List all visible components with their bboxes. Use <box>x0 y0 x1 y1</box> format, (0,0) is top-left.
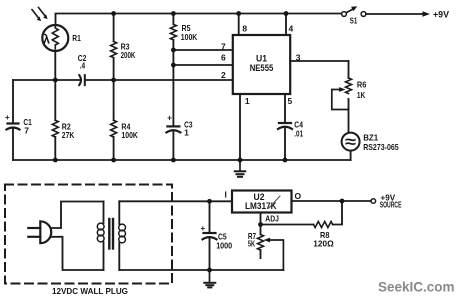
pin ADJ <box>261 213 280 225</box>
wire top rail <box>56 14 342 25</box>
wire pin7 line <box>173 49 232 51</box>
resistor R3 <box>111 14 117 81</box>
svg-text:4: 4 <box>289 23 294 33</box>
pin 3 <box>290 53 348 63</box>
resistor R8 <box>261 201 343 228</box>
ground supply <box>204 270 215 287</box>
svg-text:ADJ: ADJ <box>265 214 279 224</box>
wire pin6 line <box>173 64 232 66</box>
svg-text:2: 2 <box>221 70 226 80</box>
potentiometer R6 <box>332 61 352 132</box>
svg-text:O: O <box>295 191 302 201</box>
label BZ1 RS273-065 <box>363 133 399 153</box>
switch S1 <box>342 6 366 16</box>
label R7 5K <box>248 231 256 248</box>
svg-text:1K: 1K <box>357 90 366 100</box>
transformer T1 secondary winding <box>119 201 126 270</box>
label C2 .4 <box>78 53 87 70</box>
potentiometer R7 <box>258 225 284 271</box>
svg-text:I: I <box>225 190 227 200</box>
svg-text:≈: ≈ <box>345 134 356 151</box>
label R5 100K <box>181 23 198 42</box>
svg-text:.01: .01 <box>294 129 303 139</box>
pin 1 <box>240 94 250 160</box>
label C3 1 <box>184 119 193 137</box>
photoresistor R1 <box>42 25 68 78</box>
ground <box>235 160 245 177</box>
resistor R4 <box>111 80 117 160</box>
svg-text:3: 3 <box>296 53 301 63</box>
svg-text:7: 7 <box>24 125 29 135</box>
svg-text:+: + <box>167 114 172 123</box>
capacitor C5 <box>201 201 217 270</box>
svg-text:+: + <box>201 224 206 233</box>
label C4 .01 <box>294 120 303 139</box>
svg-text:27K: 27K <box>62 130 75 140</box>
svg-text:5: 5 <box>288 96 293 106</box>
svg-text:λ: λ <box>43 33 50 47</box>
label R8 120ohm <box>313 230 334 248</box>
transformer T1 primary winding <box>97 202 104 271</box>
label R3 200K <box>121 42 136 60</box>
wire to +9V arrow <box>366 11 430 16</box>
svg-text:1000: 1000 <box>216 241 232 251</box>
label R6 1K <box>357 79 367 100</box>
light arrows at R1 <box>32 8 48 22</box>
capacitor C3 <box>166 114 180 160</box>
wire U2 output <box>292 199 376 204</box>
svg-text:BZ1: BZ1 <box>363 133 378 143</box>
svg-text:LM317K: LM317K <box>245 201 277 211</box>
svg-text:+: + <box>5 113 10 122</box>
wire plug to transformer primary <box>51 202 103 271</box>
svg-text:SOURCE: SOURCE <box>380 201 402 210</box>
capacitor C1 <box>5 80 20 160</box>
svg-text:1: 1 <box>245 96 250 106</box>
regulator U2 LM317K box <box>232 191 292 213</box>
svg-text:100K: 100K <box>121 130 138 140</box>
AC plug P1 <box>28 221 51 243</box>
svg-text:100K: 100K <box>181 32 198 42</box>
svg-text:.4: .4 <box>80 60 86 70</box>
label R4 100K <box>121 122 138 140</box>
IC U1 NE555 <box>233 35 290 94</box>
label C1 7 <box>23 117 32 135</box>
wire bottom rail <box>13 159 351 161</box>
svg-text:5K: 5K <box>248 238 256 248</box>
svg-text:RS273-065: RS273-065 <box>363 142 399 152</box>
label R2 27K <box>62 122 75 140</box>
wire secondary top to U2 input <box>119 200 232 202</box>
svg-text:S1: S1 <box>350 16 358 26</box>
svg-text:200K: 200K <box>121 50 136 60</box>
svg-text:12VDC WALL PLUG: 12VDC WALL PLUG <box>52 286 128 296</box>
svg-text:+9V: +9V <box>433 9 449 19</box>
resistor R5 <box>170 14 176 126</box>
pin 4 <box>286 14 294 36</box>
svg-text:6: 6 <box>221 52 226 62</box>
svg-text:SeekIC.com: SeekIC.com <box>378 280 455 295</box>
svg-text:R1: R1 <box>72 33 81 43</box>
pin 5 <box>285 94 293 122</box>
svg-text:NE555: NE555 <box>250 63 274 74</box>
transformer T1 core <box>109 219 113 249</box>
svg-text:8: 8 <box>242 23 247 33</box>
pin 8 <box>239 14 248 36</box>
label C5 1000 <box>216 231 232 250</box>
svg-text:120Ω: 120Ω <box>313 238 334 248</box>
wire pin2 line <box>13 79 233 81</box>
dashed enclosure 12VDC wall plug <box>5 185 172 284</box>
capacitor C2 <box>79 75 85 85</box>
svg-text:1: 1 <box>184 128 189 138</box>
capacitor C4 <box>278 123 292 160</box>
buzzer BZ1 <box>342 133 360 160</box>
svg-text:7: 7 <box>221 41 226 51</box>
wire secondary bottom rail <box>119 269 283 271</box>
svg-text:R6: R6 <box>357 79 367 89</box>
resistor R2 <box>52 80 58 160</box>
label +9V SOURCE <box>380 193 402 209</box>
